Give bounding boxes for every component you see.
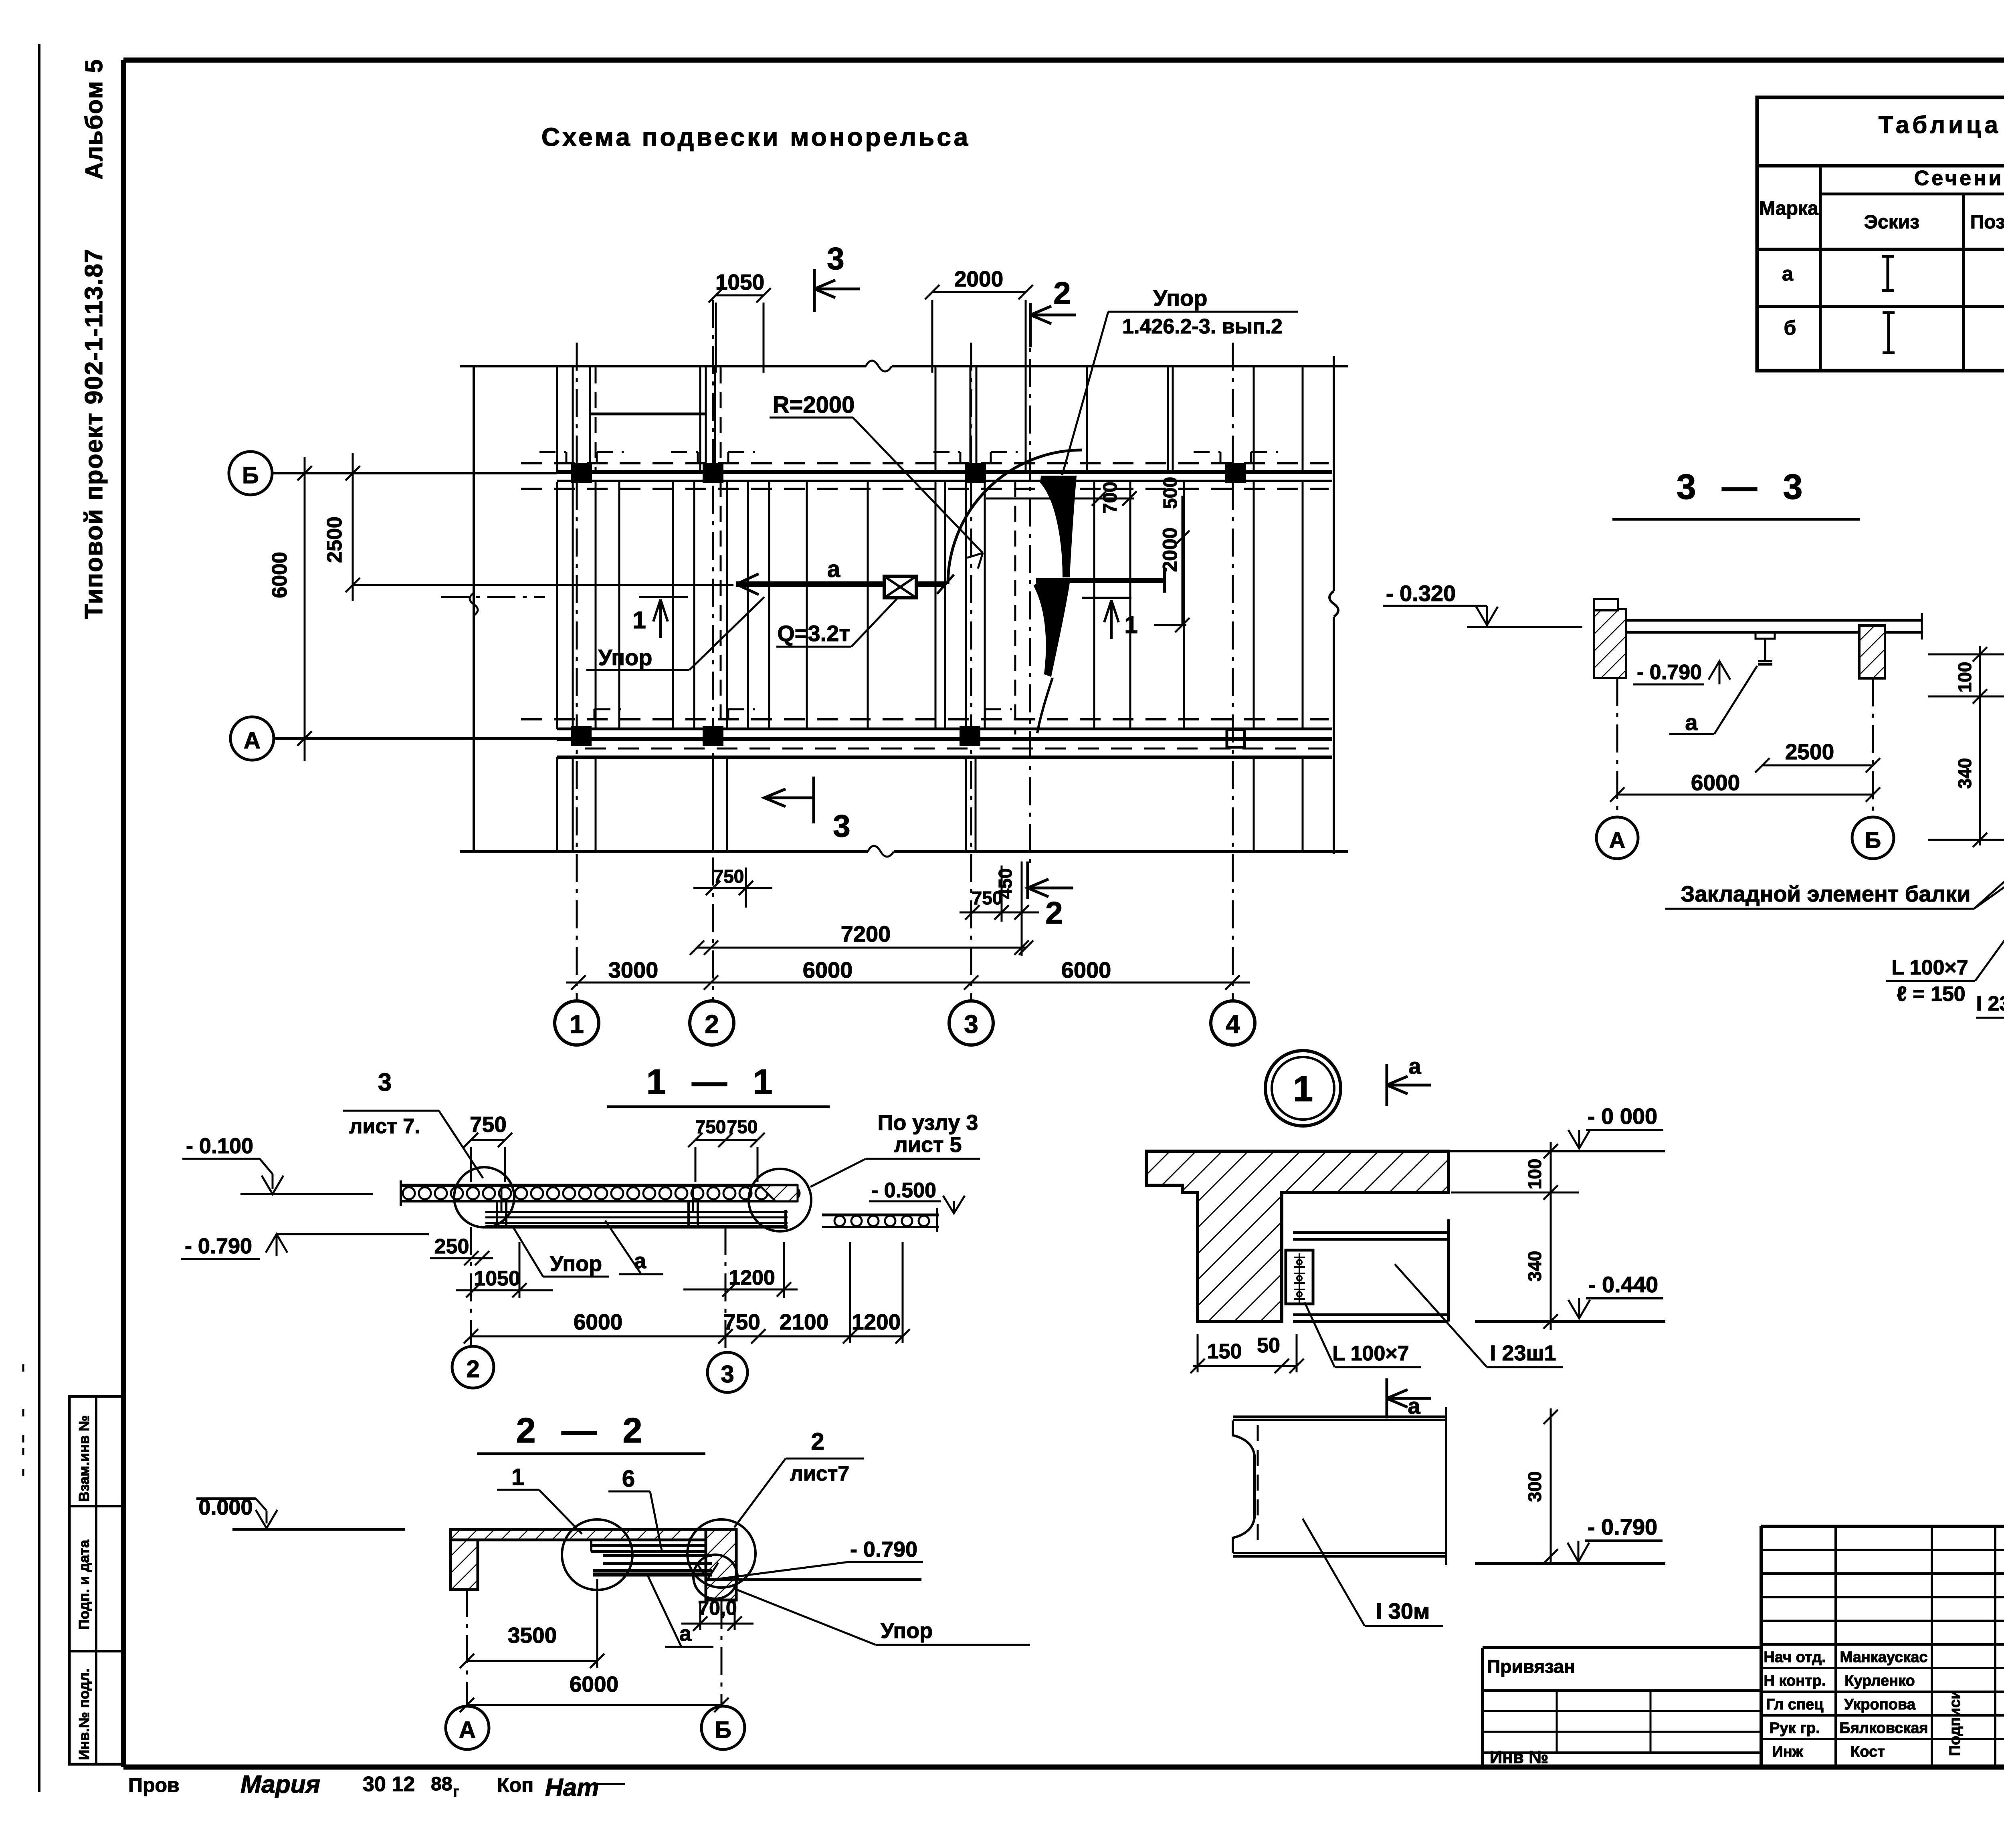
- svg-text:а: а: [1408, 1393, 1420, 1418]
- svg-text:Сечение: Сечение: [1914, 167, 2004, 190]
- svg-text:700: 700: [1100, 482, 1121, 514]
- svg-text:I 23ш1: I 23ш1: [1976, 992, 2004, 1015]
- svg-text:3000: 3000: [608, 957, 659, 983]
- svg-text:Типовой проект 902-1-113.87: Типовой проект 902-1-113.87: [80, 248, 108, 619]
- svg-text:70,0: 70,0: [698, 1597, 737, 1619]
- svg-text:50: 50: [1257, 1334, 1280, 1357]
- svg-text:лист 5: лист 5: [894, 1133, 962, 1157]
- svg-text:100: 100: [1524, 1159, 1545, 1190]
- svg-text:Упор: Упор: [550, 1252, 602, 1276]
- svg-text:4: 4: [1226, 1010, 1240, 1039]
- svg-text:Упор: Упор: [1154, 285, 1208, 311]
- svg-text:Нат: Нат: [545, 1774, 599, 1802]
- svg-text:ℓ = 150: ℓ = 150: [1897, 983, 1965, 1006]
- svg-text:1050: 1050: [474, 1267, 520, 1290]
- svg-text:2: 2: [705, 1010, 719, 1039]
- svg-text:Упор: Упор: [598, 645, 653, 670]
- svg-text:750: 750: [695, 1116, 726, 1137]
- svg-text:1: 1: [632, 607, 646, 633]
- svg-text:Манкаускас: Манкаускас: [1840, 1649, 1928, 1666]
- svg-text:А: А: [1609, 827, 1625, 853]
- svg-text:- 0.440: - 0.440: [1588, 1272, 1658, 1297]
- svg-text:б: б: [1784, 317, 1796, 339]
- svg-text:2 — 2: 2 — 2: [516, 1410, 650, 1450]
- svg-text:1200: 1200: [852, 1309, 901, 1334]
- svg-text:2: 2: [466, 1356, 479, 1382]
- svg-text:лист 7.: лист 7.: [349, 1115, 420, 1138]
- svg-text:88: 88: [431, 1773, 452, 1795]
- svg-text:Мария: Мария: [240, 1771, 320, 1798]
- svg-text:1: 1: [511, 1464, 524, 1490]
- svg-text:3: 3: [833, 808, 850, 843]
- svg-text:6: 6: [622, 1466, 635, 1492]
- svg-text:6000: 6000: [1691, 770, 1740, 795]
- svg-text:2000: 2000: [954, 266, 1003, 291]
- svg-text:30 12: 30 12: [363, 1773, 415, 1796]
- svg-text:лист7: лист7: [790, 1462, 849, 1485]
- svg-text:L 100×7: L 100×7: [1891, 956, 1968, 979]
- svg-text:Б: Б: [242, 462, 259, 488]
- svg-text:1.426.2-3. вып.2: 1.426.2-3. вып.2: [1122, 315, 1283, 338]
- svg-text:6000: 6000: [574, 1309, 622, 1334]
- svg-text:2: 2: [1053, 275, 1071, 311]
- svg-text:750: 750: [727, 1116, 758, 1137]
- svg-text:- 0.320: - 0.320: [1386, 581, 1456, 606]
- svg-text:- 0.790: - 0.790: [1637, 661, 1702, 684]
- svg-text:2: 2: [811, 1428, 824, 1455]
- svg-text:6000: 6000: [803, 957, 853, 983]
- svg-text:3: 3: [378, 1069, 392, 1096]
- svg-text:Укропова: Укропова: [1844, 1696, 1916, 1713]
- svg-text:2500: 2500: [1785, 739, 1834, 764]
- svg-text:- 0.500: - 0.500: [871, 1179, 936, 1202]
- svg-text:2100: 2100: [780, 1309, 828, 1334]
- svg-text:1: 1: [570, 1010, 584, 1039]
- svg-text:Взам.инв №: Взам.инв №: [76, 1415, 92, 1502]
- svg-text:а: а: [634, 1249, 646, 1273]
- svg-text:2500: 2500: [323, 516, 346, 563]
- svg-text:300: 300: [1524, 1471, 1545, 1502]
- svg-text:Б: Б: [715, 1717, 731, 1743]
- svg-text:L 100×7: L 100×7: [1332, 1342, 1409, 1365]
- svg-text:Схема подвески монорельса: Схема подвески монорельса: [541, 123, 970, 151]
- svg-text:а: а: [1782, 262, 1794, 285]
- svg-text:3500: 3500: [508, 1623, 557, 1648]
- svg-text:Н контр.: Н контр.: [1764, 1672, 1826, 1689]
- svg-text:340: 340: [1954, 758, 1975, 789]
- svg-text:6000: 6000: [268, 552, 291, 598]
- svg-text:Q=3.2т: Q=3.2т: [777, 621, 850, 646]
- svg-text:Рук гр.: Рук гр.: [1770, 1720, 1820, 1737]
- svg-text:А: А: [459, 1717, 476, 1743]
- svg-text:- 0 000: - 0 000: [1588, 1104, 1657, 1129]
- svg-text:500: 500: [1160, 477, 1181, 509]
- svg-text:- 0.100: - 0.100: [186, 1134, 253, 1158]
- svg-text:Привязан: Привязан: [1487, 1656, 1575, 1677]
- svg-text:- 0.790: - 0.790: [850, 1537, 917, 1562]
- svg-text:Закладной элемент балки: Закладной элемент балки: [1681, 881, 1970, 906]
- svg-text:6000: 6000: [1061, 957, 1111, 983]
- svg-text:а: а: [827, 556, 840, 582]
- svg-text:а: а: [1685, 710, 1698, 735]
- svg-text:340: 340: [1524, 1251, 1545, 1282]
- svg-text:750: 750: [723, 1309, 760, 1334]
- svg-text:3: 3: [964, 1010, 978, 1039]
- svg-text:1: 1: [1293, 1069, 1313, 1109]
- svg-text:а: а: [679, 1622, 692, 1646]
- svg-text:Подписи: Подписи: [1947, 1690, 1964, 1756]
- svg-text:750: 750: [713, 866, 744, 887]
- svg-text:Альбом 5: Альбом 5: [81, 59, 107, 180]
- svg-text:I 30м: I 30м: [1376, 1598, 1430, 1624]
- svg-text:3: 3: [827, 241, 844, 276]
- svg-text:Б: Б: [1865, 827, 1881, 853]
- svg-text:- 0.790: - 0.790: [1588, 1514, 1657, 1539]
- svg-text:Курленко: Курленко: [1844, 1672, 1915, 1689]
- svg-text:7200: 7200: [841, 921, 891, 946]
- svg-text:150: 150: [1207, 1340, 1242, 1363]
- svg-text:1200: 1200: [729, 1266, 775, 1289]
- svg-text:Эскиз: Эскиз: [1864, 212, 1919, 233]
- svg-text:Инв №: Инв №: [1490, 1747, 1549, 1767]
- svg-text:1050: 1050: [715, 270, 764, 295]
- svg-text:2: 2: [1045, 895, 1063, 930]
- svg-text:а: а: [1408, 1053, 1421, 1079]
- svg-text:750: 750: [470, 1112, 507, 1137]
- svg-text:Бялковская: Бялковская: [1839, 1720, 1928, 1737]
- svg-text:Кост: Кост: [1850, 1743, 1885, 1760]
- svg-text:А: А: [244, 728, 261, 754]
- svg-text:1: 1: [1124, 611, 1137, 638]
- svg-text:100: 100: [1954, 662, 1975, 693]
- svg-text:Пров: Пров: [128, 1774, 180, 1796]
- svg-text:3: 3: [721, 1361, 734, 1388]
- svg-text:- 0.790: - 0.790: [185, 1234, 252, 1258]
- svg-text:I 23ш1: I 23ш1: [1490, 1341, 1556, 1365]
- svg-text:Упор: Упор: [881, 1619, 933, 1643]
- svg-text:450: 450: [995, 868, 1016, 899]
- svg-text:Таблица сечений и усилий: Таблица сечений и усилий: [1879, 111, 2004, 138]
- svg-text:2000: 2000: [1159, 527, 1181, 572]
- svg-text:Марка: Марка: [1759, 198, 1818, 219]
- svg-text:Поз.: Поз.: [1970, 212, 2004, 233]
- svg-text:Инж: Инж: [1772, 1743, 1803, 1760]
- svg-text:R=2000: R=2000: [773, 392, 855, 418]
- svg-text:По узлу 3: По узлу 3: [878, 1111, 978, 1135]
- svg-text:6000: 6000: [570, 1672, 618, 1697]
- svg-text:3 — 3: 3 — 3: [1677, 467, 1811, 506]
- svg-text:Коп: Коп: [497, 1774, 533, 1796]
- svg-text:Нач отд.: Нач отд.: [1764, 1649, 1826, 1666]
- svg-text:Подп. и дата: Подп. и дата: [76, 1539, 92, 1630]
- svg-text:г: г: [453, 1783, 459, 1800]
- svg-text:Гл спец: Гл спец: [1766, 1696, 1824, 1713]
- svg-text:Инв.№ подл.: Инв.№ подл.: [76, 1668, 92, 1760]
- svg-text:250: 250: [434, 1235, 469, 1258]
- svg-text:1 — 1: 1 — 1: [646, 1062, 781, 1102]
